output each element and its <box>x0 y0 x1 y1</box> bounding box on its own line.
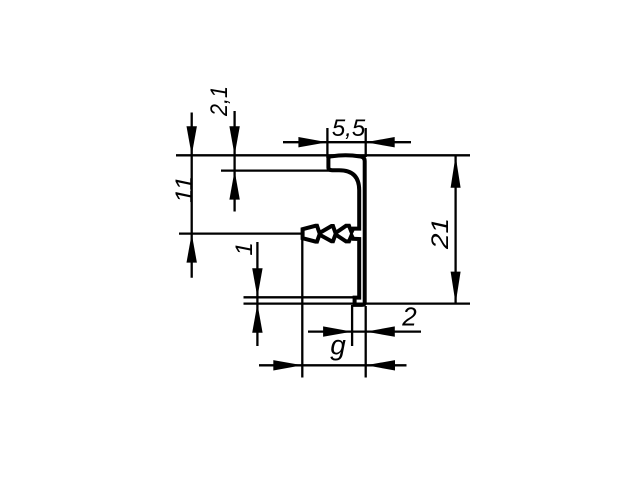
svg-text:1: 1 <box>231 242 258 255</box>
dimension 21 line <box>454 156 456 304</box>
extension line 5.5 right vertical <box>365 128 367 157</box>
extension line lip bottom (y=170.6) <box>221 169 338 171</box>
dimension 21 arrow top <box>451 156 461 188</box>
svg-text:g: g <box>330 330 346 361</box>
extension line 5.5 left vertical <box>326 128 328 158</box>
dimension 2,1 line <box>233 111 235 212</box>
dimension 11 arrow top <box>187 126 197 155</box>
dimension 9 arrow right <box>366 360 395 370</box>
dimension 21 arrow bottom <box>451 272 461 304</box>
dimension 11 line <box>191 113 193 278</box>
dimension 5,5 arrow right <box>366 137 395 147</box>
dimension 1 arrow top <box>252 268 262 297</box>
extension line right wall vertical below <box>365 306 367 378</box>
extension line bottom (y=303.6) <box>244 302 471 304</box>
extension line foot step (y=297.3) <box>244 296 360 298</box>
dimension 2 line <box>308 330 421 332</box>
dimension 2,1 arrow bottom <box>229 171 239 200</box>
dimension 9 arrow left <box>273 360 302 370</box>
dimension 11 arrow bottom <box>187 234 197 263</box>
dimension 5,5 arrow left <box>298 137 327 147</box>
dimension 2 arrow right <box>366 326 395 336</box>
svg-text:5,5: 5,5 <box>332 115 366 142</box>
extension line teeth tip vertical <box>301 234 303 378</box>
dimension 1 arrow bottom <box>252 304 262 333</box>
svg-text:21: 21 <box>427 218 454 250</box>
svg-text:2,1: 2,1 <box>206 86 233 117</box>
profile outline <box>303 155 365 305</box>
dimension 5,5 line <box>283 141 411 143</box>
extension line top (y=155) <box>176 154 470 156</box>
svg-text:11: 11 <box>171 176 198 203</box>
dimension 2,1 arrow top <box>229 126 239 155</box>
dimension 1 line <box>256 242 258 346</box>
dimension 9 line <box>259 364 407 366</box>
svg-text:2: 2 <box>401 302 417 332</box>
extension line teeth tip (y=233.6) <box>179 232 302 234</box>
extension line foot left vertical <box>351 305 353 346</box>
dimension 2 arrow left <box>323 326 352 336</box>
